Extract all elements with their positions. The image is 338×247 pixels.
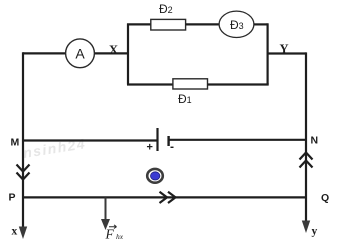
battery positive plate with + label bbox=[156, 128, 158, 151]
svg-text:Đ3: Đ3 bbox=[230, 18, 244, 32]
svg-text:Đ1: Đ1 bbox=[178, 92, 192, 106]
wire: P-Q rail bbox=[22, 196, 307, 198]
lamp Đ2 (box) with value label bbox=[151, 19, 186, 30]
wire: left outer vertical bbox=[22, 52, 24, 228]
svg-text:N: N bbox=[311, 135, 319, 147]
svg-text:+: + bbox=[147, 142, 153, 154]
svg-text:y: y bbox=[312, 226, 318, 238]
wire: ammeter feed from left vertical to ammeter bbox=[23, 52, 66, 54]
wire: top branch left segment bbox=[127, 23, 151, 25]
wire: ammeter to node X bbox=[94, 52, 128, 54]
current arrows on left vertical (downward) bbox=[17, 165, 30, 180]
axis arrow y bbox=[302, 221, 310, 234]
current arrows on P-Q rail (rightward) bbox=[160, 192, 176, 203]
ammeter A bbox=[66, 39, 95, 68]
svg-text:M: M bbox=[11, 137, 20, 149]
wire: D1 to right junction bbox=[208, 83, 269, 85]
battery negative plate with - label bbox=[167, 136, 169, 146]
wire: D3 to right junction corner bbox=[254, 23, 268, 25]
current arrows on right vertical (upward) bbox=[300, 153, 313, 168]
wire: right outer vertical bbox=[305, 52, 307, 221]
wire: right junction vertical bbox=[267, 23, 269, 84]
wire: bottom branch left segment bbox=[127, 83, 173, 85]
svg-text:Q: Q bbox=[321, 192, 329, 204]
force vector arrow F_hx bbox=[105, 197, 107, 221]
conductor cross-section (blue dot) bbox=[147, 169, 163, 183]
axis arrow x bbox=[19, 227, 27, 240]
svg-text:x: x bbox=[12, 226, 18, 238]
svg-text:Đ2: Đ2 bbox=[159, 2, 173, 16]
svg-text:P: P bbox=[9, 192, 16, 204]
svg-text:F: F bbox=[105, 227, 115, 242]
svg-text:A: A bbox=[75, 45, 85, 61]
wire: D2 to lamp D3 bbox=[186, 23, 220, 25]
svg-text:hx: hx bbox=[116, 232, 124, 241]
wire: X junction vertical bbox=[127, 24, 129, 85]
wire: M row to battery + plate bbox=[22, 139, 158, 141]
wire: Y horizontal to right outer vertical bbox=[268, 52, 306, 54]
svg-text:-: - bbox=[170, 140, 174, 154]
wire: battery - plate to N row bbox=[169, 139, 307, 141]
lamp Đ1 (box) with value label bbox=[173, 79, 208, 89]
svg-text:X: X bbox=[109, 43, 118, 57]
lamp Đ3 (ellipse) with value label bbox=[219, 11, 254, 37]
